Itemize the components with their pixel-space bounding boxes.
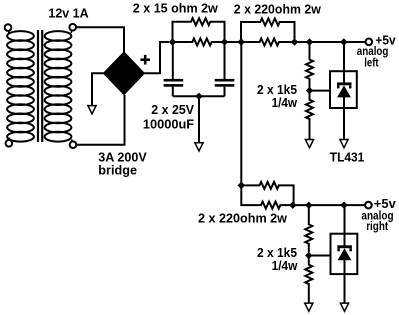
node D junction xyxy=(238,182,245,189)
node divider tap (left ch) xyxy=(306,38,313,45)
wire node C to node D xyxy=(240,42,242,185)
wire bridge minus to ground xyxy=(92,73,103,106)
wire node B to node C xyxy=(225,41,242,43)
node A junction xyxy=(169,38,176,45)
wire cap rail to ground xyxy=(198,96,200,143)
svg-text:12v 1A: 12v 1A xyxy=(48,6,89,21)
wire anode to ground (left ch) xyxy=(343,97,345,140)
ground arrow (divider left ch) xyxy=(305,140,313,148)
transformer primary top terminal xyxy=(5,24,12,33)
ground arrow (divider right ch) xyxy=(305,303,313,311)
wire capacitor bottom rail xyxy=(173,95,225,97)
node 220 join (right ch) xyxy=(289,202,296,209)
svg-text:2 x 220ohm 2w: 2 x 220ohm 2w xyxy=(234,2,322,17)
resistor 15 ohm lower xyxy=(173,39,225,46)
svg-text:2 x 15 ohm 2w: 2 x 15 ohm 2w xyxy=(133,0,219,15)
op-amp U1 TL431 box (left ch) xyxy=(330,71,357,108)
wire secondary top to bridge xyxy=(76,27,124,53)
node B junction xyxy=(221,38,228,45)
svg-text:bridge: bridge xyxy=(98,163,137,178)
node divider mid (right ch) xyxy=(305,252,312,259)
capacitor C1 xyxy=(164,42,184,96)
node TL431 cathode tap (right ch) xyxy=(340,202,347,209)
svg-text:right: right xyxy=(366,221,388,233)
transformer T1 secondary winding xyxy=(45,31,72,142)
resistor 1k5 upper (right ch) xyxy=(305,205,312,252)
transformer secondary top terminal xyxy=(69,24,76,33)
resistor 220 ohm upper branch (left ch) xyxy=(241,19,295,43)
svg-text:1/4w: 1/4w xyxy=(272,258,299,273)
transformer secondary bottom terminal xyxy=(70,140,77,149)
resistor 1k5 upper (left ch) xyxy=(306,42,313,88)
op-amp U2 TL431 box (right ch) xyxy=(331,234,358,274)
wire secondary bottom to bridge xyxy=(76,95,125,145)
plus sign xyxy=(140,55,150,65)
bridge rectifier D1 xyxy=(103,52,144,95)
U1 cathode bar xyxy=(337,82,352,88)
capacitor C2 xyxy=(215,42,235,96)
svg-text:+5v: +5v xyxy=(374,196,397,211)
resistor 1k5 lower (left ch) xyxy=(306,91,313,140)
transformer primary bottom terminal xyxy=(6,138,13,147)
svg-text:left: left xyxy=(364,58,379,70)
svg-text:1/4w: 1/4w xyxy=(272,95,298,110)
U2 cathode bar xyxy=(337,245,352,251)
U2 anode triangle xyxy=(338,248,352,260)
transformer T1 primary winding xyxy=(7,31,34,142)
resistor 220 ohm lower (right ch) xyxy=(241,185,292,208)
node divider tap (right ch) xyxy=(305,202,312,209)
ground arrow (U1) xyxy=(340,140,348,148)
svg-text:analog: analog xyxy=(357,46,389,58)
wire to +5v right xyxy=(293,204,365,206)
wire to +5v left xyxy=(295,41,366,43)
U1 anode triangle xyxy=(337,85,351,97)
wire anode to ground (right ch) xyxy=(344,260,346,303)
ground arrow (caps) xyxy=(195,143,203,151)
resistor 15 ohm upper branch xyxy=(173,18,225,42)
ground arrow (U2) xyxy=(340,303,348,311)
svg-text:2 x 25V: 2 x 25V xyxy=(151,102,194,117)
node TL431 cathode tap (left ch) xyxy=(340,38,347,45)
wire cathode (right ch) xyxy=(344,205,346,246)
resistor 1k5 lower (right ch) xyxy=(305,256,312,304)
node 220 join (left ch) xyxy=(291,38,298,45)
svg-text:10000uF: 10000uF xyxy=(143,116,194,131)
ground arrow (bridge minus) xyxy=(88,106,96,114)
wire ref (right ch) xyxy=(309,255,331,257)
resistor 220 ohm upper branch (right ch) xyxy=(241,182,293,205)
svg-text:2 x 220ohm 2w: 2 x 220ohm 2w xyxy=(198,210,288,225)
terminal +5v analog right xyxy=(365,202,372,209)
terminal +5v analog left xyxy=(366,39,373,46)
wire ref (left ch) xyxy=(310,90,331,92)
wire bridge plus to node A xyxy=(144,42,169,73)
svg-text:TL431: TL431 xyxy=(330,150,365,165)
wire cathode (left ch) xyxy=(343,42,345,83)
node cap-gnd junction xyxy=(195,93,202,100)
node C junction xyxy=(238,38,245,45)
node divider mid (left ch) xyxy=(306,87,313,94)
resistor 220 ohm lower (left ch) xyxy=(241,39,295,46)
transformer core xyxy=(38,30,42,142)
